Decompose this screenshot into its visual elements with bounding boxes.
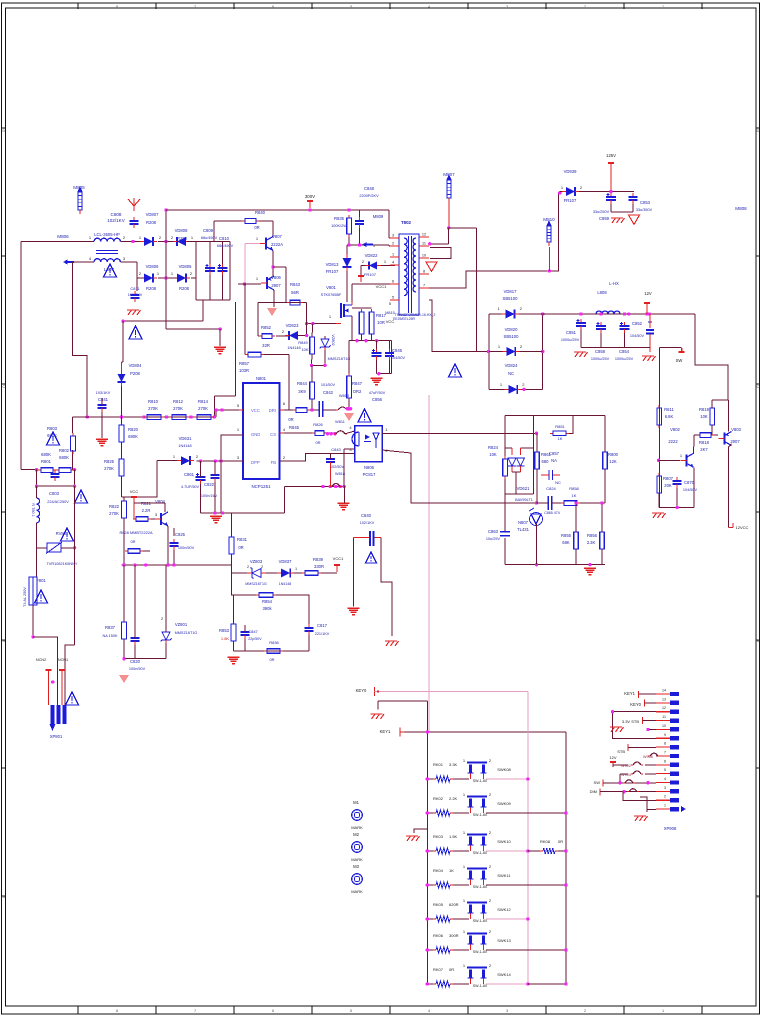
svg-text:VZ803: VZ803 [250, 559, 263, 564]
svg-text:W813: W813 [339, 394, 349, 398]
svg-text:12: 12 [662, 706, 666, 710]
svg-text:VZ802: VZ802 [331, 334, 335, 345]
svg-text:R836: R836 [269, 640, 279, 645]
svg-text:2: 2 [584, 5, 586, 9]
svg-text:1000u/25V: 1000u/25V [615, 357, 634, 361]
svg-text:0R: 0R [238, 545, 243, 550]
svg-text:SW: SW [676, 358, 683, 363]
svg-text:10: 10 [662, 724, 666, 728]
svg-text:VD807: VD807 [146, 212, 159, 217]
svg-text:NA 150K: NA 150K [103, 634, 118, 638]
svg-text:R835: R835 [334, 216, 345, 221]
svg-text:R824: R824 [488, 445, 499, 450]
svg-text:2.2R: 2.2R [142, 508, 151, 513]
svg-text:1: 1 [662, 5, 664, 9]
svg-text:C811: C811 [130, 286, 140, 291]
svg-text:1N4148: 1N4148 [279, 582, 292, 586]
svg-text:103R: 103R [239, 368, 249, 373]
svg-text:DRI: DRI [269, 408, 276, 413]
svg-text:MARK: MARK [351, 825, 363, 830]
svg-text:4.7UF/50V: 4.7UF/50V [181, 485, 200, 489]
svg-text:14: 14 [662, 689, 666, 693]
svg-text:20K: 20K [664, 483, 672, 488]
svg-text:22p/50V: 22p/50V [248, 637, 262, 641]
svg-text:2.2K: 2.2K [449, 796, 458, 801]
svg-text:R831: R831 [237, 537, 248, 542]
svg-text:R818: R818 [699, 440, 710, 445]
svg-text:SW-1-8X: SW-1-8X [473, 984, 488, 988]
svg-text:SW-1-8X: SW-1-8X [473, 919, 488, 923]
svg-text:1.8K: 1.8K [221, 636, 230, 641]
svg-text:C803: C803 [49, 491, 60, 496]
svg-text:3: 3 [506, 1009, 508, 1013]
svg-text:C863: C863 [488, 529, 499, 534]
svg-text:N807: N807 [518, 520, 529, 525]
svg-text:M809: M809 [373, 214, 384, 219]
svg-text:VD621: VD621 [517, 486, 530, 491]
svg-text:SW: SW [594, 780, 601, 785]
svg-text:R208: R208 [146, 286, 157, 291]
svg-text:270K: 270K [109, 511, 119, 516]
svg-text:L-HX: L-HX [609, 281, 619, 286]
svg-text:VD804: VD804 [129, 363, 142, 368]
svg-text:33R: 33R [262, 343, 270, 348]
svg-text:V802: V802 [670, 427, 680, 432]
svg-text:M808: M808 [735, 206, 747, 211]
svg-text:1000u/25V: 1000u/25V [561, 338, 580, 342]
svg-text:DPP: DPP [251, 460, 260, 465]
svg-text:3.3V STB: 3.3V STB [622, 719, 639, 724]
svg-text:SWK08: SWK08 [497, 767, 511, 772]
svg-text:VD805: VD805 [179, 264, 192, 269]
svg-text:11: 11 [662, 715, 666, 719]
svg-text:C859: C859 [599, 216, 610, 221]
svg-text:300V: 300V [305, 194, 315, 199]
svg-text:R854: R854 [262, 599, 273, 604]
svg-text:SWK13: SWK13 [497, 938, 511, 943]
svg-text:3: 3 [506, 5, 508, 9]
svg-text:7: 7 [194, 5, 196, 9]
svg-text:R811: R811 [664, 407, 674, 412]
svg-text:B: B [757, 638, 760, 643]
svg-text:0R: 0R [315, 440, 320, 445]
svg-text:B: B [2, 638, 5, 643]
svg-text:R858: R858 [569, 486, 579, 491]
svg-text:FR107: FR107 [326, 269, 339, 274]
svg-text:C845: C845 [392, 348, 403, 353]
svg-text:270K: 270K [104, 466, 114, 471]
svg-text:R812: R812 [173, 399, 184, 404]
svg-text:RK01: RK01 [433, 762, 444, 767]
svg-text:4: 4 [428, 1009, 430, 1013]
svg-text:T802: T802 [401, 220, 412, 225]
svg-text:VCC: VCC [130, 489, 139, 494]
svg-text:2222A: 2222A [271, 242, 283, 247]
svg-text:125V: 125V [606, 153, 616, 158]
svg-text:VCC: VCC [251, 408, 260, 413]
svg-text:5: 5 [392, 296, 394, 300]
svg-text:100n/50V: 100n/50V [178, 546, 195, 550]
svg-text:C810: C810 [219, 236, 230, 241]
svg-text:W811: W811 [335, 420, 345, 424]
svg-text:MMSZ16T1G: MMSZ16T1G [328, 357, 351, 361]
svg-text:2: 2 [247, 565, 249, 569]
svg-text:NCN1: NCN1 [58, 658, 68, 662]
svg-text:1.5K: 1.5K [449, 834, 458, 839]
svg-text:C848: C848 [364, 186, 375, 191]
svg-text:RK04: RK04 [433, 868, 444, 873]
svg-text:C: C [757, 384, 760, 389]
svg-text:VD822: VD822 [365, 253, 378, 258]
svg-text:2907: 2907 [730, 439, 740, 444]
svg-text:0R: 0R [288, 417, 293, 422]
svg-text:10K: 10K [489, 452, 497, 457]
svg-text:6: 6 [392, 280, 394, 284]
svg-text:V803: V803 [731, 427, 741, 432]
svg-text:R807: R807 [663, 476, 674, 481]
svg-text:C861: C861 [184, 472, 195, 477]
svg-text:XP801: XP801 [50, 734, 63, 739]
svg-text:10K: 10K [700, 414, 708, 419]
svg-text:VZ801: VZ801 [175, 622, 188, 627]
svg-text:N806: N806 [364, 465, 375, 470]
svg-text:F801: F801 [36, 578, 46, 583]
svg-text:M2: M2 [353, 832, 359, 837]
svg-text:TL431: TL431 [517, 527, 530, 532]
svg-text:8: 8 [664, 742, 666, 746]
svg-text:0R: 0R [449, 967, 454, 972]
svg-text:R810: R810 [148, 399, 159, 404]
svg-text:STB: STB [617, 749, 625, 754]
svg-text:2200P/2KV: 2200P/2KV [359, 194, 379, 198]
svg-text:1N4148: 1N4148 [287, 346, 300, 350]
svg-text:3.3K: 3.3K [449, 762, 458, 767]
svg-text:VD817: VD817 [504, 289, 517, 294]
svg-text:VD824: VD824 [505, 363, 518, 368]
svg-text:RK07: RK07 [433, 967, 444, 972]
svg-text:330R: 330R [314, 564, 324, 569]
svg-text:EE25/EEL25R: EE25/EEL25R [393, 317, 415, 321]
svg-text:7: 7 [423, 284, 425, 288]
svg-text:L808: L808 [597, 290, 607, 295]
svg-text:MMSZ16T1G: MMSZ16T1G [175, 631, 198, 635]
svg-text:RK03: RK03 [433, 834, 444, 839]
svg-text:224/AC250V: 224/AC250V [47, 500, 69, 504]
svg-text:R849: R849 [298, 340, 308, 345]
svg-text:12VCC: 12VCC [736, 525, 749, 530]
svg-text:R208: R208 [179, 286, 190, 291]
svg-text:R208: R208 [146, 220, 157, 225]
svg-text:6.8K: 6.8K [665, 414, 674, 419]
svg-text:104/50V: 104/50V [683, 488, 698, 492]
svg-text:SW-1-8X: SW-1-8X [473, 885, 488, 889]
svg-text:C852: C852 [632, 321, 643, 326]
svg-text:1K: 1K [558, 436, 563, 441]
svg-text:0R: 0R [130, 539, 135, 544]
svg-text:RK08: RK08 [540, 839, 551, 844]
svg-text:104/50V: 104/50V [391, 356, 406, 360]
svg-text:SWK10: SWK10 [497, 839, 511, 844]
svg-text:3: 3 [392, 234, 394, 238]
svg-text:VD823: VD823 [286, 323, 299, 328]
svg-text:2: 2 [584, 1009, 586, 1013]
svg-text:68u/450V: 68u/450V [217, 244, 234, 248]
svg-text:R855: R855 [561, 533, 572, 538]
svg-text:M815: M815 [385, 311, 395, 315]
svg-text:SW-1-8X: SW-1-8X [473, 813, 488, 817]
svg-text:VD820: VD820 [505, 327, 518, 332]
svg-text:102/1KV: 102/1KV [107, 218, 126, 223]
svg-text:8: 8 [116, 5, 118, 9]
svg-text:R826: R826 [313, 422, 323, 427]
svg-text:V801: V801 [326, 285, 336, 290]
svg-text:R800: R800 [608, 452, 619, 457]
svg-text:C870: C870 [684, 480, 695, 485]
svg-text:VD939: VD939 [564, 169, 577, 174]
svg-text:R820: R820 [128, 427, 139, 432]
svg-text:2: 2 [664, 795, 666, 799]
svg-text:XP908: XP908 [664, 826, 677, 831]
svg-text:GND: GND [251, 432, 260, 437]
svg-text:6: 6 [272, 1009, 274, 1013]
svg-text:7: 7 [664, 750, 666, 754]
svg-text:R847: R847 [352, 381, 363, 386]
svg-text:8: 8 [116, 1009, 118, 1013]
svg-text:6: 6 [272, 5, 274, 9]
svg-text:270K: 270K [173, 406, 183, 411]
svg-text:R851: R851 [555, 424, 565, 429]
svg-text:P208: P208 [130, 371, 140, 376]
svg-text:5: 5 [350, 5, 352, 9]
svg-text:R837: R837 [105, 625, 116, 630]
svg-text:1K: 1K [449, 868, 454, 873]
svg-text:C854: C854 [619, 349, 630, 354]
svg-text:4: 4 [428, 5, 430, 9]
svg-text:LCL-3505-HP: LCL-3505-HP [94, 232, 120, 237]
svg-text:R844: R844 [297, 381, 308, 386]
svg-text:SWK09: SWK09 [497, 801, 511, 806]
svg-text:1: 1 [664, 804, 666, 808]
svg-text:68u/450V: 68u/450V [201, 236, 218, 240]
svg-text:RK06: RK06 [433, 933, 444, 938]
svg-text:2: 2 [392, 242, 394, 246]
svg-text:680K: 680K [41, 452, 51, 457]
svg-text:KEY1: KEY1 [624, 691, 635, 696]
svg-text:VD631: VD631 [179, 436, 192, 441]
svg-text:N801: N801 [256, 376, 267, 381]
svg-text:CS: CS [270, 432, 276, 437]
svg-text:4: 4 [664, 777, 666, 781]
svg-text:C853: C853 [640, 200, 651, 205]
svg-text:NC: NC [508, 371, 514, 376]
svg-text:102/50V: 102/50V [330, 465, 345, 469]
svg-text:R814: R814 [198, 399, 209, 404]
svg-text:680K: 680K [59, 455, 69, 460]
svg-text:3.3K: 3.3K [587, 540, 596, 545]
svg-text:1K: 1K [572, 493, 577, 498]
svg-text:SWK12: SWK12 [497, 907, 511, 912]
svg-text:KEY0: KEY0 [356, 688, 367, 693]
svg-text:KEY0: KEY0 [630, 702, 641, 707]
svg-text:R T80 1: R T80 1 [31, 503, 35, 516]
svg-text:C841: C841 [98, 397, 109, 402]
svg-text:M806: M806 [57, 234, 69, 239]
svg-text:1: 1 [295, 567, 297, 571]
svg-text:104/50V: 104/50V [630, 334, 645, 338]
svg-text:VCC1: VCC1 [333, 556, 344, 561]
svg-text:10R: 10R [377, 320, 385, 325]
svg-text:12V: 12V [609, 755, 616, 760]
svg-text:1000u/25V: 1000u/25V [591, 357, 610, 361]
svg-text:M3: M3 [353, 864, 359, 869]
svg-text:R803: R803 [47, 426, 58, 431]
svg-text:68K: 68K [562, 540, 570, 545]
svg-text:NCP1251: NCP1251 [251, 484, 271, 489]
svg-text:11: 11 [422, 242, 426, 246]
svg-text:R857: R857 [239, 361, 250, 366]
svg-text:NA: NA [551, 458, 557, 463]
svg-text:NCN2: NCN2 [36, 658, 46, 662]
svg-text:FR107: FR107 [364, 272, 377, 277]
svg-text:100n/50V: 100n/50V [129, 667, 146, 671]
svg-text:V807: V807 [272, 234, 282, 239]
svg-text:620R: 620R [449, 902, 459, 907]
svg-text:C840: C840 [361, 513, 372, 518]
svg-text:VD813: VD813 [326, 262, 339, 267]
svg-text:TVR10821K5NNY: TVR10821K5NNY [47, 562, 78, 566]
svg-text:R828 MMBT2222A: R828 MMBT2222A [119, 530, 152, 535]
svg-text:MARK: MARK [351, 857, 363, 862]
svg-text:7: 7 [194, 1009, 196, 1013]
svg-text:VD806: VD806 [146, 264, 159, 269]
svg-text:D: D [757, 128, 760, 133]
svg-text:33u/350V: 33u/350V [636, 208, 653, 212]
svg-text:R819: R819 [699, 407, 710, 412]
svg-text:DIM: DIM [590, 789, 597, 794]
svg-text:C856: C856 [372, 397, 383, 402]
svg-text:BAV99LT1: BAV99LT1 [515, 498, 533, 502]
svg-text:NC: NC [555, 480, 561, 485]
svg-text:PC817: PC817 [363, 472, 376, 477]
svg-text:2K7: 2K7 [700, 447, 708, 452]
svg-text:680: 680 [542, 459, 550, 464]
svg-text:R801: R801 [41, 459, 52, 464]
svg-text:SB5100: SB5100 [504, 334, 520, 339]
svg-text:12K: 12K [609, 459, 617, 464]
svg-text:KEY1: KEY1 [380, 729, 391, 734]
svg-text:C847: C847 [248, 629, 258, 634]
svg-text:R839: R839 [313, 557, 324, 562]
svg-text:FB: FB [271, 460, 277, 465]
svg-text:0R: 0R [558, 839, 563, 844]
svg-text:SW-1-8X: SW-1-8X [473, 851, 488, 855]
svg-text:SWK14: SWK14 [497, 972, 511, 977]
svg-text:5: 5 [664, 768, 666, 772]
svg-text:C865 474: C865 474 [544, 511, 560, 515]
svg-text:C: C [2, 384, 5, 389]
svg-text:10u/25V: 10u/25V [486, 537, 501, 541]
svg-text:MMSZ16T1G: MMSZ16T1G [245, 582, 267, 586]
svg-text:5: 5 [350, 1009, 352, 1013]
svg-text:1: 1 [662, 1009, 664, 1013]
svg-text:3: 3 [664, 786, 666, 790]
svg-text:270K: 270K [198, 406, 208, 411]
svg-text:12V: 12V [644, 291, 652, 296]
svg-text:SWK11: SWK11 [497, 873, 511, 878]
svg-text:R825: R825 [104, 459, 115, 464]
svg-text:0R: 0R [254, 225, 259, 230]
svg-text:R856: R856 [587, 533, 598, 538]
svg-text:VCC1: VCC1 [376, 284, 387, 289]
svg-text:13: 13 [662, 697, 666, 701]
svg-text:4: 4 [392, 261, 394, 265]
svg-text:W818: W818 [335, 472, 345, 476]
svg-text:C857: C857 [549, 451, 560, 456]
svg-text:R845: R845 [289, 425, 300, 430]
svg-text:R802: R802 [59, 448, 70, 453]
svg-text:0R: 0R [269, 657, 274, 662]
svg-text:SW-1-8X: SW-1-8X [473, 950, 488, 954]
svg-text:R843: R843 [290, 282, 301, 287]
svg-text:R852: R852 [261, 325, 272, 330]
svg-text:A: A [2, 894, 5, 899]
svg-text:100K/2W: 100K/2W [331, 224, 347, 228]
svg-text:C824: C824 [546, 486, 556, 491]
svg-text:221/1KV: 221/1KV [315, 632, 330, 636]
svg-text:R840: R840 [255, 210, 266, 215]
svg-text:FR107: FR107 [564, 198, 577, 203]
svg-text:8: 8 [423, 270, 425, 274]
svg-text:103/1KV: 103/1KV [96, 391, 111, 395]
svg-text:C820: C820 [130, 659, 141, 664]
svg-text:3K9: 3K9 [298, 389, 306, 394]
svg-text:C817: C817 [317, 623, 328, 628]
svg-text:6: 6 [664, 759, 666, 763]
svg-text:R822: R822 [109, 504, 120, 509]
svg-text:10K: 10K [301, 347, 308, 352]
svg-text:D: D [2, 128, 5, 133]
svg-text:C809: C809 [203, 228, 214, 233]
svg-text:VD837: VD837 [279, 559, 292, 564]
svg-text:T4 AL 250V: T4 AL 250V [23, 587, 27, 607]
svg-text:C825: C825 [175, 532, 186, 537]
svg-text:OR2: OR2 [353, 389, 362, 394]
svg-text:102/1KV: 102/1KV [360, 521, 375, 525]
svg-text:C858: C858 [595, 349, 606, 354]
svg-text:RK05: RK05 [433, 902, 444, 907]
svg-text:MARK: MARK [351, 889, 363, 894]
svg-text:2222: 2222 [668, 439, 678, 444]
svg-text:C822: C822 [204, 482, 215, 487]
svg-text:M1: M1 [353, 800, 359, 805]
svg-text:SB5100: SB5100 [503, 296, 519, 301]
svg-text:2907: 2907 [271, 283, 281, 288]
svg-text:101/50V: 101/50V [321, 383, 336, 387]
svg-text:33u/250V: 33u/250V [593, 210, 610, 214]
svg-text:C842: C842 [323, 390, 334, 395]
svg-text:1: 1 [392, 253, 394, 257]
svg-text:C851: C851 [566, 330, 577, 335]
svg-text:C843: C843 [331, 447, 341, 452]
svg-text:SW-1-8X: SW-1-8X [473, 779, 488, 783]
svg-text:RK02: RK02 [433, 796, 444, 801]
svg-text:2: 2 [161, 617, 163, 621]
svg-text:1N4148: 1N4148 [178, 444, 191, 448]
svg-text:300R: 300R [449, 933, 459, 938]
svg-text:C808: C808 [111, 212, 122, 217]
svg-text:10: 10 [422, 254, 426, 258]
svg-text:VD808: VD808 [175, 228, 188, 233]
